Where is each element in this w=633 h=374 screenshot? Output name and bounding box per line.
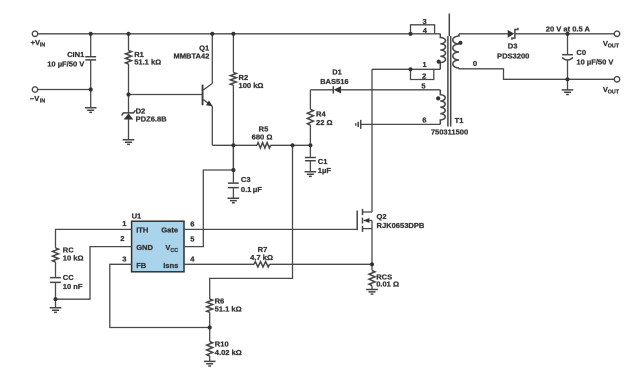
transformer T1 primary winding <box>437 34 446 70</box>
mosfet Q2 <box>357 209 425 264</box>
svg-text:T1: T1 <box>455 116 464 125</box>
svg-text:10 µF/50 V: 10 µF/50 V <box>47 59 84 68</box>
svg-text:D3: D3 <box>508 42 518 51</box>
diode D1 <box>310 67 440 93</box>
wire aux pin6 to ground <box>361 123 441 125</box>
svg-text:MMBTA42: MMBTA42 <box>173 51 209 60</box>
node Q2 source RCS <box>370 262 374 266</box>
resistor RCS <box>369 264 399 289</box>
wire sense divider drop <box>210 145 293 299</box>
svg-text:10 kΩ: 10 kΩ <box>63 254 84 263</box>
node CC GND <box>53 297 57 301</box>
wire VCC pin5 route <box>184 170 233 247</box>
node CIN1 top <box>89 32 93 36</box>
capacitor C3 <box>228 145 262 198</box>
node Q1 base <box>126 92 130 96</box>
svg-text:IN: IN <box>40 43 45 49</box>
resistor R6 <box>207 297 242 328</box>
transformer T1 secondary winding <box>453 34 463 68</box>
wire secondary bottom <box>459 68 614 79</box>
node xfmr pin4 <box>408 32 412 36</box>
svg-text:2: 2 <box>120 234 124 243</box>
capacitor CC <box>50 273 83 299</box>
node R2 bottom <box>231 143 235 147</box>
svg-text:ITH: ITH <box>136 225 148 234</box>
svg-text:IN: IN <box>40 98 45 104</box>
node Q1 collector <box>210 32 214 36</box>
terminal -VIN <box>32 87 37 92</box>
wire Q1 base <box>129 94 202 96</box>
ground C0 <box>562 90 574 95</box>
svg-text:1: 1 <box>422 60 426 69</box>
svg-text:CC: CC <box>63 273 74 282</box>
wire Gate pin6 to Q2 <box>184 228 357 230</box>
node C0 top <box>565 32 569 36</box>
resistor R2 <box>230 34 263 146</box>
svg-text:750311500: 750311500 <box>431 128 468 137</box>
resistor R5 <box>212 125 310 148</box>
resistor R7 <box>250 245 372 267</box>
label VOUT top <box>603 39 620 49</box>
wire FB pin3 route <box>110 264 210 327</box>
svg-text:R4: R4 <box>316 109 326 118</box>
svg-text:51.1 kΩ: 51.1 kΩ <box>134 58 161 67</box>
svg-text:Isns: Isns <box>163 261 178 270</box>
ground C1 <box>305 172 317 177</box>
wire secondary top to D3 <box>459 33 508 35</box>
wire top rail +VIN <box>38 33 441 35</box>
node divider tap <box>290 143 294 147</box>
zener diode D2 <box>122 95 168 140</box>
pin label VCC <box>165 243 178 254</box>
svg-text:1µF: 1µF <box>318 166 332 175</box>
svg-text:3: 3 <box>422 17 426 26</box>
wire Isns pin4 to R7 <box>184 263 254 265</box>
resistor RC <box>53 245 84 277</box>
svg-text:5: 5 <box>421 81 425 90</box>
svg-text:6: 6 <box>422 115 426 124</box>
svg-text:10 µF/50 V: 10 µF/50 V <box>576 58 613 67</box>
transistor Q1 <box>173 34 212 146</box>
resistor R10 <box>207 328 242 362</box>
svg-text:CC: CC <box>170 248 178 254</box>
ground CIN1 <box>85 108 97 113</box>
diode D3 schottky <box>497 28 529 61</box>
svg-text:PDS3200: PDS3200 <box>497 51 529 60</box>
transformer T1 aux winding <box>436 90 445 125</box>
node switch <box>408 67 412 71</box>
node C3 VCC <box>231 168 235 172</box>
node C0 bottom <box>565 77 569 81</box>
svg-text:0.01 Ω: 0.01 Ω <box>376 280 399 289</box>
svg-text:5: 5 <box>190 234 194 243</box>
label VOUT bottom <box>603 85 620 95</box>
svg-text:100 kΩ: 100 kΩ <box>239 81 264 90</box>
ground RCS <box>366 290 378 295</box>
svg-text:C0: C0 <box>576 48 586 57</box>
resistor R4 <box>307 90 332 146</box>
svg-text:51.1 kΩ: 51.1 kΩ <box>215 305 242 314</box>
terminal +VIN <box>32 31 37 36</box>
transformer jumper 3-4 <box>411 25 435 34</box>
svg-text:OUT: OUT <box>608 43 620 49</box>
svg-text:2: 2 <box>422 71 426 80</box>
label +VIN <box>31 38 46 48</box>
svg-text:C3: C3 <box>241 175 251 184</box>
terminal VOUT bottom <box>614 77 619 82</box>
resistor R1 <box>126 34 162 95</box>
wire CC junction to ground <box>55 299 57 308</box>
label -VIN <box>30 94 45 104</box>
ground D2 <box>123 140 135 145</box>
svg-text:U1: U1 <box>132 211 142 220</box>
transformer jumper 1-2 <box>411 69 434 79</box>
node R4 C1 <box>308 143 312 147</box>
svg-text:3: 3 <box>122 254 126 263</box>
svg-text:4.02 kΩ: 4.02 kΩ <box>215 348 242 357</box>
ground CC <box>50 308 62 313</box>
wire GND pin2 route <box>56 247 132 300</box>
svg-text:C1: C1 <box>318 157 328 166</box>
node R6 R10 <box>208 325 212 329</box>
svg-text:0: 0 <box>473 59 477 68</box>
ground pin6 sideways <box>356 120 361 129</box>
capacitor C0 <box>562 34 613 80</box>
ground C3 <box>228 198 240 203</box>
wire C0 to ground <box>567 79 569 90</box>
svg-text:FB: FB <box>136 261 147 270</box>
node CIN1 bottom <box>89 87 93 91</box>
svg-text:RJK0653DPB: RJK0653DPB <box>377 221 425 230</box>
svg-text:OUT: OUT <box>608 90 620 96</box>
svg-text:10 nF: 10 nF <box>63 282 83 291</box>
ground R10 <box>204 361 216 366</box>
wire C3 junction drop <box>232 145 234 170</box>
svg-text:PDZ6.8B: PDZ6.8B <box>136 115 168 124</box>
terminal VOUT top <box>614 31 619 36</box>
svg-text:GND: GND <box>136 243 153 252</box>
node R2 top <box>231 32 235 36</box>
node R1 top <box>126 32 130 36</box>
svg-text:–V: –V <box>30 94 39 103</box>
svg-text:D1: D1 <box>332 67 342 76</box>
svg-text:0.1 µF: 0.1 µF <box>241 185 262 194</box>
svg-text:Gate: Gate <box>161 225 178 234</box>
svg-text:680 Ω: 680 Ω <box>252 132 273 141</box>
wire -VIN to CIN1 <box>38 89 91 91</box>
wire switch node <box>372 68 440 70</box>
svg-text:1: 1 <box>122 219 126 228</box>
wire ITH pin1 to RC <box>56 229 132 248</box>
wire D3 to VOUT <box>515 33 615 35</box>
svg-text:6: 6 <box>190 220 194 229</box>
capacitor C1 <box>305 145 331 175</box>
transformer T1 core <box>448 14 451 127</box>
wire Q2 drain drop <box>371 69 373 212</box>
IC U1 box <box>132 211 184 271</box>
svg-text:22 Ω: 22 Ω <box>316 118 333 127</box>
svg-text:+V: +V <box>31 38 40 47</box>
svg-text:CIN1: CIN1 <box>67 50 84 59</box>
capacitor CIN1 <box>47 34 96 108</box>
svg-text:BAS516: BAS516 <box>320 77 349 86</box>
svg-text:4.7 kΩ: 4.7 kΩ <box>250 253 273 262</box>
